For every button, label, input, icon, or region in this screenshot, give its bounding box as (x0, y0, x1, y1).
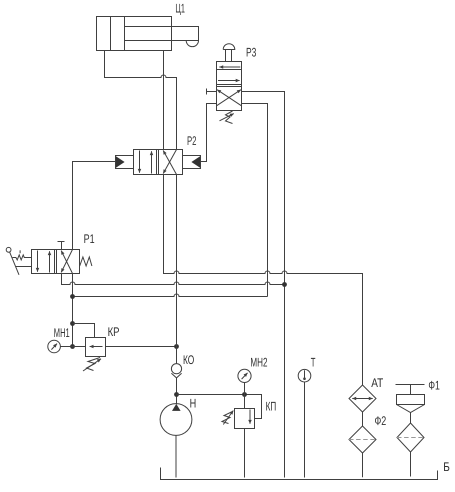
svg-text:КР: КР (108, 325, 120, 339)
pilot box left of Р2 (116, 156, 134, 169)
relief valve КП (235, 409, 255, 429)
spring with arrow left of КП (222, 411, 233, 425)
svg-text:Ф2: Ф2 (375, 414, 387, 428)
check valve КО (171, 364, 181, 378)
wire cylinder right port to Р2 top (163, 51, 165, 150)
pressure reducing valve КР (86, 338, 106, 357)
node junction line2/drain (282, 282, 287, 287)
filter Ф2 (349, 426, 376, 453)
svg-text:АТ: АТ (371, 376, 383, 390)
wire cylinder left port to Р2 top (hop over vertical) (105, 51, 177, 150)
svg-text:МН1: МН1 (54, 326, 70, 340)
svg-text:Т: Т (311, 355, 316, 369)
svg-text:Р1: Р1 (84, 232, 95, 246)
wire pump junction to МН2/КП and pilot loop (177, 395, 262, 419)
lever of Р1 (6, 247, 31, 274)
svg-text:Ф1: Ф1 (428, 378, 440, 392)
node junction КР pilot branch (70, 321, 75, 326)
svg-text:Р3: Р3 (246, 45, 256, 59)
valve Р2 (134, 150, 183, 175)
wire Ф1 to tank (410, 452, 412, 477)
thermometer Т (298, 369, 311, 382)
node junction МН2/КП (242, 392, 247, 397)
breather/filler Ф1 (396, 385, 425, 453)
wire Т stem to tank (304, 382, 306, 478)
wire Р2 right pilot from Р3 lower-left port (201, 104, 217, 162)
svg-text:Р2: Р2 (187, 134, 197, 148)
wire МН1 to КР (60, 346, 85, 348)
wire КР pilot branch (73, 324, 95, 338)
pump Н (160, 404, 192, 436)
gauge МН2 (238, 369, 251, 382)
svg-text:Ц1: Ц1 (175, 1, 185, 15)
wire Р3 lower-right port down to line 3 (242, 104, 268, 297)
wire КР output to pump riser (106, 346, 177, 348)
wire line 1: Р2 bottom-left port to cooler АТ (164, 175, 363, 386)
wire Р3 upper-right port to drain bus and tank (242, 92, 285, 478)
spring right of Р1 (80, 257, 92, 266)
wire КП outlet to tank (244, 429, 246, 478)
tank Б (161, 468, 438, 480)
valve Р3 (217, 62, 242, 111)
wire Ф2 to tank (362, 453, 364, 477)
svg-text:Н: Н (190, 397, 197, 411)
node junction pump output (174, 392, 179, 397)
spring with arrow below Р3 (220, 111, 234, 124)
wire Р2 left pilot to Р1 top (73, 162, 116, 250)
svg-text:Б: Б (443, 460, 450, 474)
wire pump suction to tank (175, 435, 177, 477)
wire АТ to Ф2 (362, 412, 364, 426)
wire Р1 bottom-right port down to МН1/КР junction (72, 274, 74, 347)
wire line 2: Р1 bottom-left port to drain junction (62, 274, 285, 285)
svg-text:КО: КО (183, 353, 194, 367)
node junction МН1 line (70, 344, 75, 349)
wire line 3: Р1 bottom-right junction to Р3 riser (73, 294, 268, 297)
valve Р1 (32, 250, 80, 274)
cylinder Ц1 (97, 17, 199, 51)
wire КО to pump (176, 378, 178, 404)
spring with arrow below КР (83, 358, 101, 372)
heat exchanger АТ (349, 385, 376, 412)
wire МН2 stem into КП (244, 383, 246, 409)
gauge МН1 (48, 340, 61, 353)
push button of Р3 (223, 44, 235, 62)
node junction riser/КР (174, 344, 179, 349)
wire pump riser (Р2 bottom-right port down to pump) (176, 175, 178, 364)
svg-text:МН2: МН2 (250, 356, 267, 370)
plugged port at Р3 upper-left (207, 89, 217, 95)
svg-text:КП: КП (266, 400, 277, 414)
plugged port (T-bar) on top of Р1 (58, 242, 65, 250)
pilot box right of Р2 (183, 156, 201, 169)
node junction Р1/line3 (70, 294, 75, 299)
